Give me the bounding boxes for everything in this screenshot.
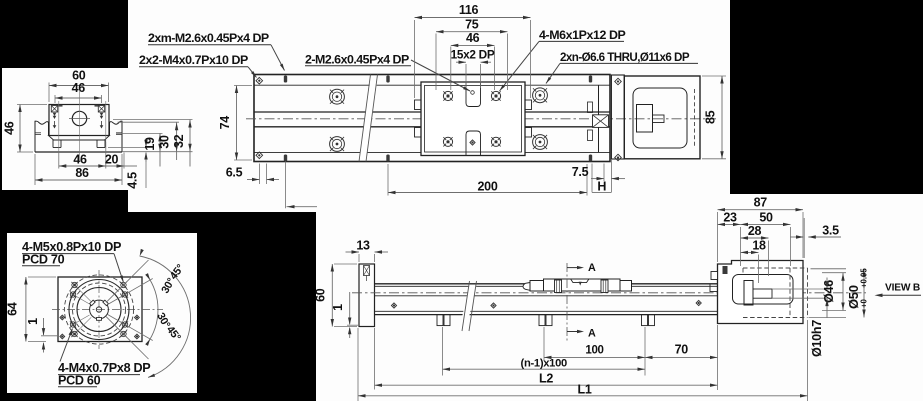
svg-text:4.5: 4.5 xyxy=(125,172,139,189)
svg-text:32: 32 xyxy=(172,134,186,148)
svg-text:6.5: 6.5 xyxy=(226,166,243,180)
svg-text:46: 46 xyxy=(466,31,480,45)
svg-text:200: 200 xyxy=(478,179,498,193)
svg-text:85: 85 xyxy=(704,110,718,124)
svg-text:2x2-M4x0.7Px10 DP: 2x2-M4x0.7Px10 DP xyxy=(139,53,248,67)
svg-text:64: 64 xyxy=(5,302,19,316)
svg-text:50: 50 xyxy=(759,211,773,225)
svg-text:15x2 DP: 15x2 DP xyxy=(451,48,495,62)
svg-text:1: 1 xyxy=(26,318,40,325)
svg-text:7.5: 7.5 xyxy=(572,165,589,179)
svg-text:3.5: 3.5 xyxy=(822,224,839,238)
svg-text:20: 20 xyxy=(105,153,119,167)
svg-text:74: 74 xyxy=(218,116,232,130)
svg-text:1: 1 xyxy=(331,304,345,311)
svg-text:86: 86 xyxy=(75,166,89,180)
svg-text:28: 28 xyxy=(748,224,762,238)
svg-text:75: 75 xyxy=(465,17,479,31)
svg-text:+0.05: +0.05 xyxy=(860,268,869,288)
svg-text:30: 30 xyxy=(158,135,172,149)
svg-text:46: 46 xyxy=(72,81,86,95)
svg-text:46: 46 xyxy=(73,153,87,167)
svg-text:(n-1)x100: (n-1)x100 xyxy=(521,357,567,369)
svg-text:18: 18 xyxy=(752,239,766,253)
svg-text:2xm-M2.6x0.45Px4 DP: 2xm-M2.6x0.45Px4 DP xyxy=(148,31,269,45)
svg-text:2xn-Ø6.6 THRU,Ø11x6 DP: 2xn-Ø6.6 THRU,Ø11x6 DP xyxy=(560,51,690,64)
svg-text:PCD 60: PCD 60 xyxy=(58,374,101,388)
svg-text:Ø10h7: Ø10h7 xyxy=(810,320,824,357)
svg-text:2-M2.6x0.45Px4 DP: 2-M2.6x0.45Px4 DP xyxy=(305,53,409,67)
svg-text:23: 23 xyxy=(723,211,737,225)
svg-text:+0: +0 xyxy=(860,298,869,308)
svg-text:87: 87 xyxy=(754,196,768,210)
svg-text:19: 19 xyxy=(143,137,157,151)
svg-text:4-M6x1Px12 DP: 4-M6x1Px12 DP xyxy=(539,28,626,42)
svg-text:H: H xyxy=(597,180,606,194)
svg-text:70: 70 xyxy=(675,343,689,357)
svg-text:60: 60 xyxy=(314,288,328,302)
svg-text:VIEW B: VIEW B xyxy=(885,283,920,294)
svg-text:13: 13 xyxy=(356,238,370,252)
svg-text:A: A xyxy=(588,328,596,340)
svg-text:A: A xyxy=(588,262,596,274)
svg-text:100: 100 xyxy=(585,345,603,357)
svg-text:116: 116 xyxy=(459,3,479,17)
svg-text:PCD 70: PCD 70 xyxy=(22,253,65,267)
svg-text:L1: L1 xyxy=(578,383,592,397)
svg-text:46: 46 xyxy=(3,121,17,135)
svg-text:Ø46: Ø46 xyxy=(822,280,836,303)
svg-text:L2: L2 xyxy=(539,372,553,386)
